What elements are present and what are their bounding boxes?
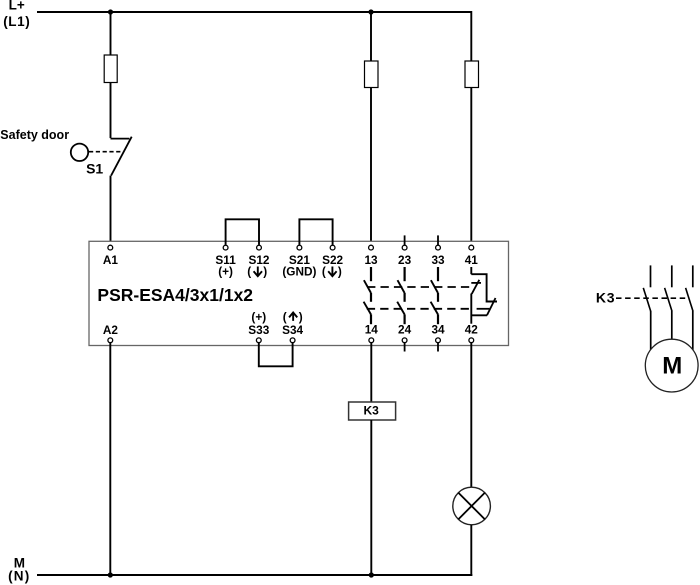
label S21 (GND): [282, 253, 316, 279]
wire middle branch from L+ to terminal 13: [370, 12, 372, 245]
node junction at M rail / left branch: [108, 572, 113, 577]
stub above terminal 33: [437, 235, 439, 245]
svg-text:13: 13: [364, 253, 378, 267]
svg-text:(+): (+): [251, 310, 266, 324]
bridge S33-S34: [259, 343, 293, 366]
fuse F2: [365, 61, 379, 88]
terminal S34: [290, 338, 295, 343]
node junction at M rail / middle branch: [369, 572, 374, 577]
wire lamp to M rail: [470, 525, 472, 576]
contactor K3 contact 2: [665, 265, 672, 339]
label M (N): [8, 556, 30, 584]
relay box PSR-ESA4/3x1/1x2: [89, 241, 509, 345]
label S12 (down arrow): [247, 253, 270, 279]
terminal A1: [108, 245, 113, 250]
power rail L+: [37, 11, 471, 13]
terminal S11: [223, 245, 228, 250]
terminal 14: [369, 338, 374, 343]
linkage dashed row 1: [367, 286, 471, 288]
wire A2 to M rail: [109, 343, 111, 575]
svg-text:(L1): (L1): [3, 14, 30, 29]
terminal 13: [369, 245, 374, 250]
svg-text:14: 14: [365, 323, 379, 337]
wire S1 to terminal A1: [110, 176, 112, 246]
svg-text:(: (: [247, 265, 251, 279]
svg-text:24: 24: [398, 323, 412, 337]
terminal 24: [402, 338, 407, 343]
terminal 41: [469, 245, 474, 250]
svg-text:(GND): (GND): [282, 265, 316, 279]
terminal S21: [297, 245, 302, 250]
svg-text:(: (: [283, 310, 287, 324]
svg-text:(+): (+): [218, 265, 233, 279]
safety door actuator: [71, 144, 88, 161]
coil K3: [349, 402, 396, 420]
svg-text:(N): (N): [8, 569, 30, 584]
terminal S33: [256, 338, 261, 343]
svg-text:): ): [338, 265, 342, 279]
bridge S21-S22: [299, 219, 332, 245]
svg-text:Safety door: Safety door: [0, 128, 69, 142]
svg-text:K3: K3: [596, 290, 616, 306]
switch S1 blade: [111, 137, 132, 176]
terminal S22: [330, 245, 335, 250]
terminal 34: [436, 338, 441, 343]
NC contact 41-42: [471, 267, 497, 324]
svg-text:): ): [263, 265, 267, 279]
wire 42 to lamp: [470, 343, 472, 488]
contact 23-24: [397, 267, 404, 324]
stub below terminal 34: [437, 343, 439, 352]
contact 33-34: [431, 267, 438, 324]
fuse F3: [465, 61, 479, 88]
svg-text:M: M: [662, 352, 682, 379]
svg-text:33: 33: [431, 253, 445, 267]
label S34 (up arrow): [282, 310, 303, 337]
terminal 33: [436, 245, 441, 250]
svg-text:): ): [299, 310, 303, 324]
svg-text:L+: L+: [9, 0, 25, 13]
wire right branch from L+ to terminal 41: [470, 11, 472, 245]
wire coil K3 to M rail: [370, 420, 372, 575]
svg-text:S1: S1: [86, 161, 103, 177]
motor M: [645, 339, 698, 392]
bridge S11-S12: [226, 219, 259, 245]
linkage dashed row 2: [367, 308, 474, 310]
svg-text:34: 34: [431, 323, 445, 337]
fuse F1: [104, 55, 117, 83]
node junction at L+ / middle branch: [368, 9, 373, 14]
terminal S12: [257, 245, 262, 250]
svg-text:23: 23: [398, 253, 412, 267]
stub below terminal 24: [404, 343, 406, 352]
wire left branch from L+ to switch S1: [110, 12, 112, 138]
contactor K3 contact 1: [643, 265, 650, 349]
svg-text:42: 42: [465, 323, 479, 337]
terminal 23: [402, 245, 407, 250]
contactor K3 contact 3: [686, 265, 693, 350]
svg-text:(: (: [322, 265, 326, 279]
label S11 (+): [215, 253, 236, 279]
node junction at L+ / left branch: [108, 9, 113, 14]
power rail M (N): [37, 574, 472, 576]
label S33 (+): [248, 310, 269, 337]
label L+ (L1): [3, 0, 30, 29]
svg-text:S33: S33: [248, 323, 269, 337]
contact 13-14: [364, 267, 371, 324]
label S22 (down arrow): [322, 253, 344, 279]
lamp H1: [453, 487, 491, 525]
terminal A2: [108, 338, 113, 343]
svg-text:A2: A2: [103, 323, 119, 337]
svg-text:PSR-ESA4/3x1/1x2: PSR-ESA4/3x1/1x2: [97, 285, 253, 305]
svg-text:41: 41: [465, 253, 479, 267]
svg-text:A1: A1: [103, 253, 119, 267]
contactor K3 dashed link: [616, 297, 689, 299]
svg-text:K3: K3: [364, 403, 380, 417]
actuator dashed link: [89, 151, 123, 153]
svg-text:S34: S34: [282, 323, 303, 337]
stub above terminal 23: [404, 235, 406, 245]
switch S1 fixed contact: [111, 138, 130, 140]
wire 14 to coil K3: [370, 343, 372, 402]
terminal 42: [469, 338, 474, 343]
